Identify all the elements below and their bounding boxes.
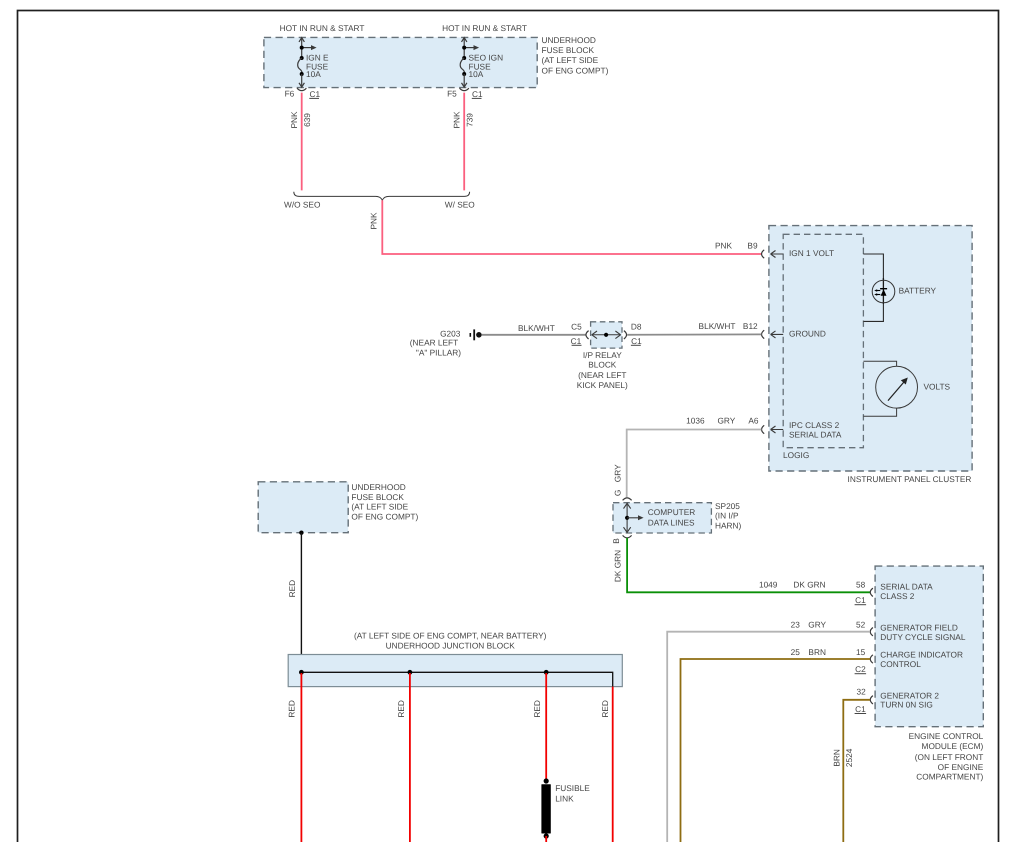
wire PNK 739 (463, 93, 465, 191)
wire RED 3 (545, 673, 547, 780)
wire GRY 23 from pin 52 (667, 632, 870, 842)
volts gauge (863, 361, 950, 416)
svg-text:LOGIG: LOGIG (783, 450, 809, 460)
svg-text:1036: 1036 (686, 416, 705, 426)
svg-text:W/O SEO: W/O SEO (284, 200, 321, 210)
svg-text:GRY: GRY (717, 416, 735, 426)
svg-text:LINK: LINK (555, 793, 574, 803)
svg-text:OF ENG COMPT): OF ENG COMPT) (351, 512, 418, 522)
svg-text:DK GRN: DK GRN (793, 580, 825, 590)
svg-text:C1: C1 (631, 336, 642, 346)
junction dot B (408, 670, 413, 675)
svg-text:IPC CLASS 2: IPC CLASS 2 (789, 420, 840, 430)
svg-text:(IN I/P: (IN I/P (715, 510, 739, 520)
svg-text:ENGINE CONTROL: ENGINE CONTROL (909, 731, 984, 741)
svg-text:RED: RED (287, 580, 297, 598)
svg-text:(ON LEFT FRONT: (ON LEFT FRONT (915, 752, 984, 762)
svg-text:(AT LEFT SIDE: (AT LEFT SIDE (542, 55, 599, 65)
svg-text:IGN 1 VOLT: IGN 1 VOLT (789, 248, 834, 258)
svg-text:HOT IN RUN & START: HOT IN RUN & START (442, 23, 527, 33)
svg-text:VOLTS: VOLTS (924, 382, 951, 392)
svg-text:FUSE BLOCK: FUSE BLOCK (351, 492, 404, 502)
wire PNK 639 (301, 93, 303, 191)
svg-text:B: B (611, 538, 621, 544)
svg-text:PNK: PNK (451, 111, 461, 129)
svg-text:OF ENGINE: OF ENGINE (938, 762, 984, 772)
svg-text:DATA LINES: DATA LINES (648, 518, 695, 528)
pin 52 connector GENERATOR FIELD DUTY CYCLE SIGNAL (870, 628, 873, 636)
pin A6 connector and IPC CLASS 2 SERIAL DATA (762, 420, 842, 440)
brace merge W/O SEO and W/ SEO (294, 192, 470, 201)
svg-text:TURN 0N SIG: TURN 0N SIG (880, 700, 933, 710)
wire BLK/WHT D8 to B12 (627, 333, 761, 335)
I/P relay block pass-through (577, 322, 628, 390)
svg-text:UNDERHOOD: UNDERHOOD (351, 482, 405, 492)
underhood fuse block (lower left) (258, 482, 418, 535)
svg-text:BATTERY: BATTERY (899, 285, 937, 295)
wire PNK to cluster pin B9 (382, 200, 761, 254)
svg-text:GRY: GRY (612, 464, 622, 482)
svg-text:SERIAL DATA: SERIAL DATA (789, 430, 842, 440)
svg-text:B9: B9 (747, 241, 758, 251)
svg-text:1049: 1049 (759, 580, 778, 590)
svg-text:GRY: GRY (808, 619, 826, 629)
svg-text:739: 739 (465, 113, 475, 127)
engine control module box (875, 566, 983, 727)
svg-text:BLOCK: BLOCK (588, 360, 617, 370)
svg-text:CONTROL: CONTROL (880, 659, 921, 669)
svg-text:52: 52 (856, 619, 866, 629)
svg-text:GROUND: GROUND (789, 329, 826, 339)
svg-text:BRN: BRN (808, 647, 826, 657)
fusible link (541, 778, 590, 842)
logic inner box (783, 234, 863, 447)
svg-text:(NEAR LEFT: (NEAR LEFT (578, 370, 626, 380)
splice SP205 computer data lines (613, 498, 742, 538)
svg-text:(NEAR LEFT: (NEAR LEFT (410, 337, 458, 347)
svg-text:F6: F6 (285, 88, 295, 98)
svg-text:DK GRN: DK GRN (612, 550, 622, 582)
wire RED 1 (300, 673, 302, 842)
svg-text:UNDERHOOD JUNCTION BLOCK: UNDERHOOD JUNCTION BLOCK (386, 641, 516, 651)
battery indicator lamp U-battery (863, 254, 936, 321)
pin 32 connector GENERATOR 2 TURN 0N SIG (870, 696, 873, 704)
svg-text:HARN): HARN) (715, 521, 742, 531)
svg-text:RED: RED (532, 700, 542, 718)
svg-text:INSTRUMENT PANEL CLUSTER: INSTRUMENT PANEL CLUSTER (848, 474, 972, 484)
connector C1 pin F6 (297, 88, 306, 90)
svg-text:FUSIBLE: FUSIBLE (555, 783, 590, 793)
svg-text:15: 15 (856, 647, 866, 657)
svg-text:23: 23 (791, 619, 801, 629)
svg-text:KICK PANEL): KICK PANEL) (577, 380, 628, 390)
svg-text:C2: C2 (855, 664, 866, 674)
svg-text:A6: A6 (748, 416, 759, 426)
svg-text:639: 639 (302, 113, 312, 127)
svg-text:RED: RED (396, 700, 406, 718)
svg-text:UNDERHOOD: UNDERHOOD (542, 35, 596, 45)
svg-text:I/P RELAY: I/P RELAY (583, 350, 622, 360)
connector C5 C1 (586, 331, 589, 339)
ground G203 (410, 328, 482, 357)
svg-text:F5: F5 (447, 88, 457, 98)
fuse F5 SEO IGN FUSE 10A (460, 38, 479, 88)
svg-text:58: 58 (856, 580, 866, 590)
svg-text:C1: C1 (472, 89, 483, 99)
instrument panel cluster box (769, 226, 972, 471)
svg-text:OF ENG COMPT): OF ENG COMPT) (542, 65, 609, 75)
svg-text:C1: C1 (310, 89, 321, 99)
wire DK GRN 1049 to ECM pin 58 (627, 538, 870, 592)
pin B12 connector and GROUND (762, 329, 826, 339)
underhood fuse block (top) (264, 35, 609, 88)
svg-text:BRN: BRN (831, 749, 841, 767)
pin B9 connector and IGN 1 VOLT (762, 248, 834, 258)
svg-text:10A: 10A (469, 69, 484, 79)
svg-text:COMPUTER: COMPUTER (648, 507, 695, 517)
svg-text:C1: C1 (855, 704, 866, 714)
connector C1 pin F5 (460, 88, 469, 90)
wire BLK/WHT G203 to C5 (482, 334, 586, 336)
svg-text:(AT LEFT SIDE: (AT LEFT SIDE (351, 502, 408, 512)
svg-text:CLASS 2: CLASS 2 (880, 591, 915, 601)
svg-text:PNK: PNK (368, 212, 378, 230)
wire GRY 1036 A6 to splice SP205 (627, 430, 762, 498)
connector D8 C1 (624, 331, 627, 339)
svg-text:32: 32 (856, 686, 866, 696)
svg-text:10A: 10A (306, 69, 321, 79)
svg-text:C5: C5 (571, 321, 582, 331)
svg-text:G: G (612, 490, 622, 496)
wire RED 2 (409, 673, 411, 842)
pin 15 connector CHARGE INDICATOR CONTROL (870, 655, 873, 663)
svg-text:D8: D8 (631, 321, 642, 331)
junction dot C (544, 670, 549, 675)
svg-text:RED: RED (287, 700, 297, 718)
junction dot A (299, 670, 304, 675)
svg-text:25: 25 (791, 647, 801, 657)
svg-text:RED: RED (600, 700, 610, 718)
svg-text:FUSE BLOCK: FUSE BLOCK (542, 45, 595, 55)
svg-text:DUTY CYCLE SIGNAL: DUTY CYCLE SIGNAL (880, 632, 966, 642)
wire RED 4 (612, 687, 614, 842)
wire BRN 2524 from pin 32 (843, 700, 870, 842)
svg-text:MODULE (ECM): MODULE (ECM) (922, 741, 984, 751)
svg-text:(AT LEFT SIDE OF ENG COMPT, NE: (AT LEFT SIDE OF ENG COMPT, NEAR BATTERY… (354, 631, 547, 641)
svg-text:B12: B12 (743, 321, 758, 331)
svg-text:COMPARTMENT): COMPARTMENT) (916, 772, 983, 782)
fuse F6 IGN E FUSE 10A (298, 38, 317, 88)
svg-text:BLK/WHT: BLK/WHT (518, 323, 555, 333)
wire BRN 25 from pin 15 (681, 659, 871, 842)
svg-text:"A" PILLAR): "A" PILLAR) (416, 347, 461, 357)
svg-text:W/ SEO: W/ SEO (445, 200, 476, 210)
svg-text:HOT IN RUN & START: HOT IN RUN & START (280, 23, 365, 33)
svg-text:C1: C1 (855, 595, 866, 605)
underhood junction block (288, 631, 622, 687)
svg-text:C1: C1 (571, 336, 582, 346)
wire RED (fuse block to junction block) (300, 533, 302, 673)
pin 58 connector SERIAL DATA CLASS 2 (870, 588, 873, 596)
svg-text:2524: 2524 (844, 748, 854, 767)
svg-text:BLK/WHT: BLK/WHT (699, 321, 736, 331)
svg-text:PNK: PNK (289, 111, 299, 129)
svg-text:PNK: PNK (715, 241, 733, 251)
bus bar inside junction block (301, 672, 612, 686)
